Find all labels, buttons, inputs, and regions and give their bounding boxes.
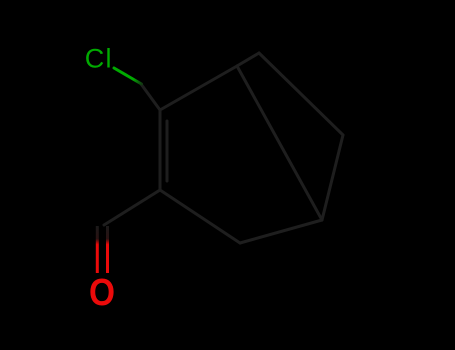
wire V4-V5 bottom right — [240, 220, 322, 243]
wire V2-V3 bond to CHO carbon — [104, 190, 160, 225]
wire V5-B1 right edge — [322, 135, 343, 220]
wire ring left edge V1-V2 — [159, 110, 162, 190]
wire Cl bond green half — [114, 68, 142, 84]
wire V1-A1 top slope — [160, 66, 237, 110]
wire apex-B1 long slope — [259, 53, 343, 135]
node C=O double bond line right — [106, 226, 109, 273]
node C=O double bond line left — [96, 226, 99, 273]
wire V2-V4 bottom slope — [160, 190, 240, 243]
wire inner double bond line — [166, 121, 169, 181]
svg-text:Cl: Cl — [85, 44, 112, 74]
wire C-Cl bond skeleton half — [141, 84, 160, 110]
svg-text:O: O — [89, 271, 115, 313]
wire A1-apex — [237, 53, 259, 66]
wire internal bridge A1-V5 — [237, 66, 322, 220]
